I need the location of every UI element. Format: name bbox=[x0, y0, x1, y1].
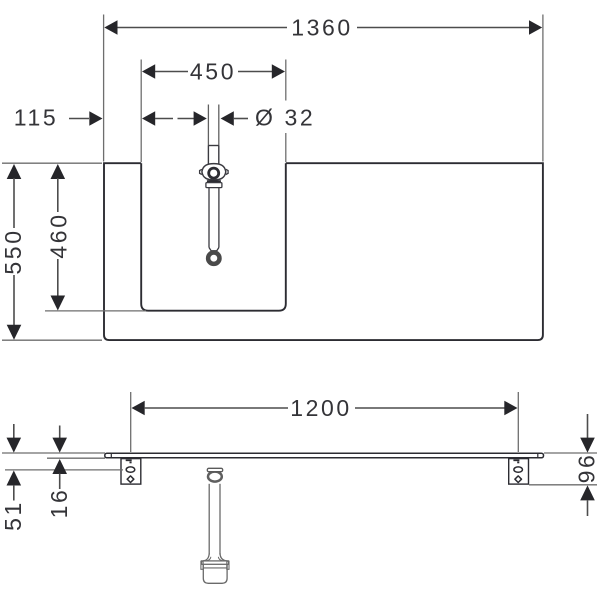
dimension 450 line right segment bbox=[238, 71, 272, 73]
drain attachment top bar (front view) bbox=[207, 468, 222, 471]
extension line console bottom to 550 dim bbox=[2, 339, 102, 341]
dimension 550 line lower segment bbox=[13, 275, 15, 326]
left bracket clamp detail dot bbox=[130, 461, 132, 463]
dimension 51 down arrowhead bbox=[7, 438, 22, 453]
trap left lug (front view) bbox=[201, 561, 203, 569]
trap shoulder right outer (front view) bbox=[220, 553, 228, 561]
dimension 16 up arrowhead bbox=[52, 459, 67, 474]
svg-text:550: 550 bbox=[0, 228, 26, 274]
drain tailpipe (plan) bbox=[208, 188, 210, 248]
trap shoulder left inner line (front view) bbox=[207, 557, 211, 561]
trap right lug (front view) bbox=[227, 561, 229, 569]
extension line basin right up to 450 dim (upper) bbox=[285, 60, 287, 101]
extension line right edge up to 1360 dim bbox=[542, 15, 544, 162]
drain fitting collar box (plan) bbox=[206, 183, 222, 188]
dimension 1200 left arrowhead bbox=[132, 401, 145, 416]
drain fitting eye shape (plan) bbox=[202, 164, 226, 180]
right bracket clamp detail bar bbox=[513, 459, 519, 461]
dimension 550 bottom arrowhead bbox=[7, 325, 22, 340]
extension line basin left up to 450 dim bbox=[140, 60, 142, 163]
dimension 96 down arrowhead bbox=[580, 438, 595, 453]
extension line left edge up to 1360 dim bbox=[103, 15, 105, 162]
dimension 1360 line right segment bbox=[357, 27, 530, 29]
right bracket clamp detail dot bbox=[517, 461, 519, 463]
dimension 115 tail line left bbox=[69, 118, 89, 120]
dimension 1360 line left segment bbox=[117, 27, 287, 29]
extension line drain hole left (diameter 32) bbox=[207, 105, 209, 146]
extension line console top to left dims bbox=[2, 162, 102, 164]
slab left cap joint bbox=[110, 453, 112, 458]
drain chain ring (plan) bbox=[208, 253, 219, 264]
drain pipe joint tick (plan) bbox=[208, 145, 218, 147]
dimension 115 left arrowhead pointing right bbox=[89, 111, 102, 126]
basin cutout outline (plan) bbox=[141, 163, 286, 311]
dimension diameter 32 tail line left bbox=[178, 118, 195, 120]
svg-text:450: 450 bbox=[190, 59, 236, 85]
drain tailpipe (front view) bbox=[208, 484, 210, 555]
trap shoulder right inner line (front view) bbox=[218, 557, 222, 561]
left bracket clamp detail bar bbox=[126, 459, 132, 461]
extension line bracket bottom to 96 dim bbox=[529, 484, 597, 486]
dimension 96 line above bbox=[587, 414, 589, 439]
left bracket slotted hole bbox=[126, 467, 135, 472]
console slab (front view) bbox=[105, 453, 544, 458]
dimension 1360 left arrowhead bbox=[104, 20, 117, 35]
drain fitting left tab (plan) bbox=[200, 169, 202, 174]
dimension 460 line upper segment bbox=[57, 178, 59, 212]
svg-text:1200: 1200 bbox=[290, 395, 352, 421]
svg-text:1360: 1360 bbox=[291, 15, 353, 41]
dimension 115 tail line right bbox=[155, 118, 173, 120]
svg-text:51: 51 bbox=[0, 500, 26, 531]
extension line basin right up to 450 dim (lower) bbox=[285, 133, 287, 162]
dimension 1360 right arrowhead bbox=[529, 20, 542, 35]
right bracket slotted hole bbox=[514, 467, 523, 472]
extension line drain hole right (diameter 32) bbox=[218, 105, 220, 146]
left bracket screw hole bbox=[127, 476, 134, 483]
dimension 450 right arrowhead bbox=[272, 64, 285, 79]
trap cup body (front view) bbox=[203, 564, 227, 583]
svg-text:115: 115 bbox=[14, 105, 58, 131]
dimension 550 line upper segment bbox=[13, 178, 15, 228]
svg-text:16: 16 bbox=[46, 488, 72, 519]
right bracket screw hole bbox=[515, 476, 522, 483]
dimension diameter 32 tail line right bbox=[234, 118, 248, 120]
dimension 51 up arrowhead bbox=[7, 471, 22, 486]
extension line bracket hole to 51 dim bbox=[5, 469, 123, 471]
drain attachment ring (front view) bbox=[208, 472, 222, 482]
dimension 450 left arrowhead bbox=[142, 64, 155, 79]
dimension 550 top arrowhead bbox=[7, 164, 22, 179]
drain tailpipe end connector (plan) bbox=[209, 248, 219, 251]
extension line basin bottom to 460 dim bbox=[45, 310, 146, 312]
extension line slab top to 96 dim bbox=[544, 452, 597, 454]
dimension 460 bottom arrowhead bbox=[51, 296, 66, 311]
dimension 1200 line right segment bbox=[355, 407, 505, 409]
left bracket (front view) bbox=[121, 459, 141, 485]
dimension 51 line above bbox=[13, 424, 15, 439]
dimension diameter 32 right arrowhead pointing left bbox=[221, 111, 234, 126]
console outline (plan) bbox=[104, 163, 543, 340]
dimension 96 up arrowhead bbox=[580, 485, 595, 500]
dimension 450 line left segment bbox=[155, 71, 188, 73]
dimension 16 line above bbox=[59, 426, 61, 439]
trap collar band (front view) bbox=[202, 561, 229, 564]
extension line slab bottom to 16 dim bbox=[47, 457, 105, 459]
dimension 115 right arrowhead pointing left bbox=[142, 111, 155, 126]
dimension 1200 line left segment bbox=[144, 407, 288, 409]
extension line slab top to left dims bbox=[2, 452, 105, 454]
drain fitting inner omega ring (plan) bbox=[209, 168, 219, 178]
extension line 1200 right bbox=[517, 392, 519, 452]
extension line 1200 left bbox=[130, 392, 132, 452]
dimension 1200 right arrowhead bbox=[504, 401, 517, 416]
dimension 460 top arrowhead bbox=[51, 164, 66, 179]
dimension 16 line below bbox=[59, 474, 61, 490]
drain fitting collar dark bar (plan) bbox=[207, 180, 221, 182]
dimension diameter 32 left arrowhead pointing right bbox=[194, 111, 207, 126]
slab right cap joint bbox=[537, 453, 539, 458]
dimension 16 down arrowhead bbox=[52, 438, 67, 453]
drain fitting right tab (plan) bbox=[226, 169, 228, 174]
trap shoulder left outer (front view) bbox=[203, 553, 209, 561]
right bracket (front view) bbox=[509, 459, 529, 485]
dimension 51 line below bbox=[13, 485, 15, 501]
svg-text:Ø 32: Ø 32 bbox=[255, 105, 315, 131]
drain pipe upper outline (plan) bbox=[207, 146, 209, 165]
trap cup inner joint line (front view) bbox=[203, 567, 227, 569]
svg-text:460: 460 bbox=[46, 212, 72, 258]
dimension 460 line lower segment bbox=[57, 259, 59, 297]
svg-text:96: 96 bbox=[574, 453, 600, 484]
dimension 96 line below bbox=[587, 501, 589, 517]
